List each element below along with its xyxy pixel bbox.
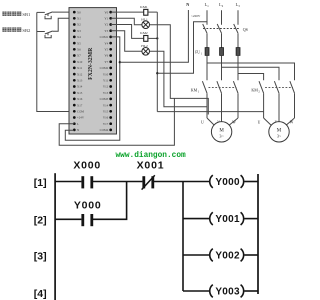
contact X001 (NC) xyxy=(137,160,165,190)
svg-text:U: U xyxy=(201,120,204,124)
svg-text:3~: 3~ xyxy=(219,134,224,139)
svg-text:Y002: Y002 xyxy=(215,251,240,262)
svg-text:Y13: Y13 xyxy=(103,91,109,95)
wire: HL2 return xyxy=(150,51,208,107)
svg-text:X1: X1 xyxy=(77,16,81,20)
output coil Y003 xyxy=(183,285,258,298)
fuse on L2 xyxy=(220,48,224,56)
wire: motor2 leads xyxy=(264,118,295,125)
wire: input common rail to COM xyxy=(37,12,75,111)
wire: L1 control tap xyxy=(157,22,207,73)
svg-text:+24V: +24V xyxy=(77,116,85,120)
svg-text:X13: X13 xyxy=(77,78,83,82)
node: N junction xyxy=(119,61,121,63)
pushbutton SB2 (stop) xyxy=(37,18,75,38)
svg-text:COM4: COM4 xyxy=(100,128,109,132)
net label L2 xyxy=(219,2,224,8)
fuse FU1 (with FU1 label) xyxy=(205,48,209,56)
svg-text:X3: X3 xyxy=(77,29,81,33)
wire: Y3 to HL2 xyxy=(111,31,142,52)
svg-text:3~: 3~ xyxy=(277,134,282,139)
svg-text:Y1: Y1 xyxy=(104,16,108,20)
svg-text:X15: X15 xyxy=(77,91,83,95)
output coil Y000 xyxy=(183,175,258,188)
svg-text:1: 1 xyxy=(198,91,200,94)
svg-text:W: W xyxy=(232,120,236,124)
contactor KM1 main contacts xyxy=(202,55,238,121)
svg-text:Y16: Y16 xyxy=(103,116,109,120)
wire: Y2 to KM2 coil xyxy=(111,25,144,39)
wire: Y0 to KM1 coil xyxy=(111,11,144,13)
svg-text:Y15: Y15 xyxy=(103,109,109,113)
svg-text:X5: X5 xyxy=(77,41,81,45)
svg-text:HL1: HL1 xyxy=(141,17,148,21)
svg-text:Y11: Y11 xyxy=(103,78,109,82)
wire: bus bottom to motor2 feed xyxy=(157,111,263,113)
svg-text:X4: X4 xyxy=(77,35,81,39)
wire: HL1 return xyxy=(150,25,209,115)
svg-text:X10: X10 xyxy=(77,60,83,64)
svg-text:SB2: SB2 xyxy=(22,28,31,33)
svg-text:[2]: [2] xyxy=(34,215,47,227)
wire: KM2 to bus xyxy=(148,37,157,39)
svg-text:Y003: Y003 xyxy=(215,287,240,298)
terminal labels U V W motor1 xyxy=(201,120,236,124)
svg-text:X7: X7 xyxy=(77,54,81,58)
pushbutton SB1 (start, NO) xyxy=(37,12,75,19)
svg-text:HL2: HL2 xyxy=(141,44,148,48)
contactor coil KM1 xyxy=(144,9,148,15)
disconnect switch QS xyxy=(203,10,248,47)
svg-text:SB1: SB1 xyxy=(22,12,31,17)
rung 1 wire c xyxy=(154,181,183,183)
ladder right rail xyxy=(257,174,259,294)
svg-text:QS: QS xyxy=(243,27,248,32)
wire: L3 feed to KM2 pole 1 xyxy=(238,55,264,80)
output coil Y002 xyxy=(183,249,258,262)
wire: COM1 to N loop xyxy=(65,37,120,140)
svg-text:3: 3 xyxy=(238,4,240,8)
svg-text:X001: X001 xyxy=(137,160,165,172)
wire: KM1 to bus xyxy=(148,11,157,13)
svg-text:Y6: Y6 xyxy=(104,54,108,58)
svg-text:[4]: [4] xyxy=(34,288,47,300)
svg-text:Y000: Y000 xyxy=(215,177,240,188)
svg-text:X11: X11 xyxy=(77,66,83,70)
svg-text:Y10: Y10 xyxy=(103,72,109,76)
contact Y000 (NO, seal-in) xyxy=(74,200,102,227)
label KM1 contacts xyxy=(191,88,200,94)
lamp HL1 xyxy=(141,17,149,28)
svg-text:X000: X000 xyxy=(73,160,101,172)
svg-text:Y5: Y5 xyxy=(104,47,108,51)
svg-text:Y001: Y001 xyxy=(215,214,240,225)
net label L3 xyxy=(236,2,241,8)
svg-text:COM: COM xyxy=(77,109,84,113)
wire: L terminal loop xyxy=(59,98,174,145)
svg-text:1: 1 xyxy=(207,4,209,8)
motor M2 xyxy=(269,122,289,142)
rung 1 wire b xyxy=(93,181,143,183)
lamp HL2 xyxy=(141,44,149,55)
fuse on L3 xyxy=(236,48,240,56)
svg-text:2: 2 xyxy=(222,4,224,8)
rung 2 wire b + branch up xyxy=(93,182,127,220)
wire: L2 feed to KM2 pole 2 xyxy=(222,55,280,80)
svg-text:2: 2 xyxy=(258,91,260,94)
svg-text:X17: X17 xyxy=(77,103,83,107)
svg-text:[1]: [1] xyxy=(34,177,47,189)
svg-text:X14: X14 xyxy=(77,85,83,89)
svg-text:Y2: Y2 xyxy=(104,23,108,27)
svg-text:[3]: [3] xyxy=(34,251,47,263)
svg-text:KM: KM xyxy=(251,88,258,93)
label: stop button 停止按钮SB2 xyxy=(2,27,31,33)
svg-text:Y14: Y14 xyxy=(103,103,109,107)
svg-text:X2: X2 xyxy=(77,23,81,27)
wire: L1 feed to KM2 pole 3 xyxy=(207,55,295,80)
svg-text:COM1: COM1 xyxy=(100,35,109,39)
PLC FX2N-32MR body xyxy=(69,8,117,134)
svg-text:FX2N-32MR: FX2N-32MR xyxy=(88,47,94,80)
svg-text:KM2: KM2 xyxy=(140,31,148,35)
svg-text:X6: X6 xyxy=(77,47,81,51)
rung 2 wire xyxy=(55,218,81,220)
svg-text:Y4: Y4 xyxy=(104,41,108,45)
svg-text:U: U xyxy=(258,120,261,124)
svg-text:X16: X16 xyxy=(77,97,83,101)
svg-text:L: L xyxy=(77,122,79,126)
PLC terminal dots and labels xyxy=(73,10,112,132)
motor M1 xyxy=(211,122,231,142)
svg-text:~220V: ~220V xyxy=(191,14,201,18)
svg-text:Y0: Y0 xyxy=(104,10,108,14)
contact X000 (NO) xyxy=(73,160,101,189)
svg-text:W: W xyxy=(290,120,294,124)
svg-text:KM: KM xyxy=(191,88,198,93)
terminal labels U V W motor2 xyxy=(258,120,294,124)
svg-text:FU: FU xyxy=(195,51,200,55)
wire: control bus xyxy=(156,12,158,112)
node: bus to L1 tap xyxy=(156,72,158,74)
svg-text:1: 1 xyxy=(201,53,203,56)
svg-text:Y7: Y7 xyxy=(104,60,108,64)
svg-text:Y17: Y17 xyxy=(103,122,109,126)
svg-text:COM2: COM2 xyxy=(100,66,109,70)
svg-text:X0: X0 xyxy=(77,10,81,14)
coil branch vertical xyxy=(182,182,184,292)
svg-text:Y3: Y3 xyxy=(104,29,108,33)
wire: mains N down to junction xyxy=(120,10,189,62)
contactor coil KM2 xyxy=(144,36,148,42)
wire: Y1 to HL1 xyxy=(111,18,142,24)
rung 1 wire xyxy=(55,181,81,183)
contactor KM2 main contacts xyxy=(259,81,295,121)
label KM2 contacts xyxy=(251,88,260,94)
output coil Y001 xyxy=(183,212,258,225)
svg-text:X12: X12 xyxy=(77,72,83,76)
svg-text:Y000: Y000 xyxy=(74,200,102,212)
ladder left rail xyxy=(54,173,56,300)
net label L1 xyxy=(205,2,210,8)
svg-text:KM1: KM1 xyxy=(140,5,148,9)
svg-text:N: N xyxy=(186,2,189,7)
svg-text:Y12: Y12 xyxy=(103,85,109,89)
wire: motor1 leads xyxy=(207,118,238,125)
svg-text:COM3: COM3 xyxy=(100,97,109,101)
label: start button 启动按钮SB1 xyxy=(2,12,31,18)
node: bus KM2 junction xyxy=(156,37,158,39)
